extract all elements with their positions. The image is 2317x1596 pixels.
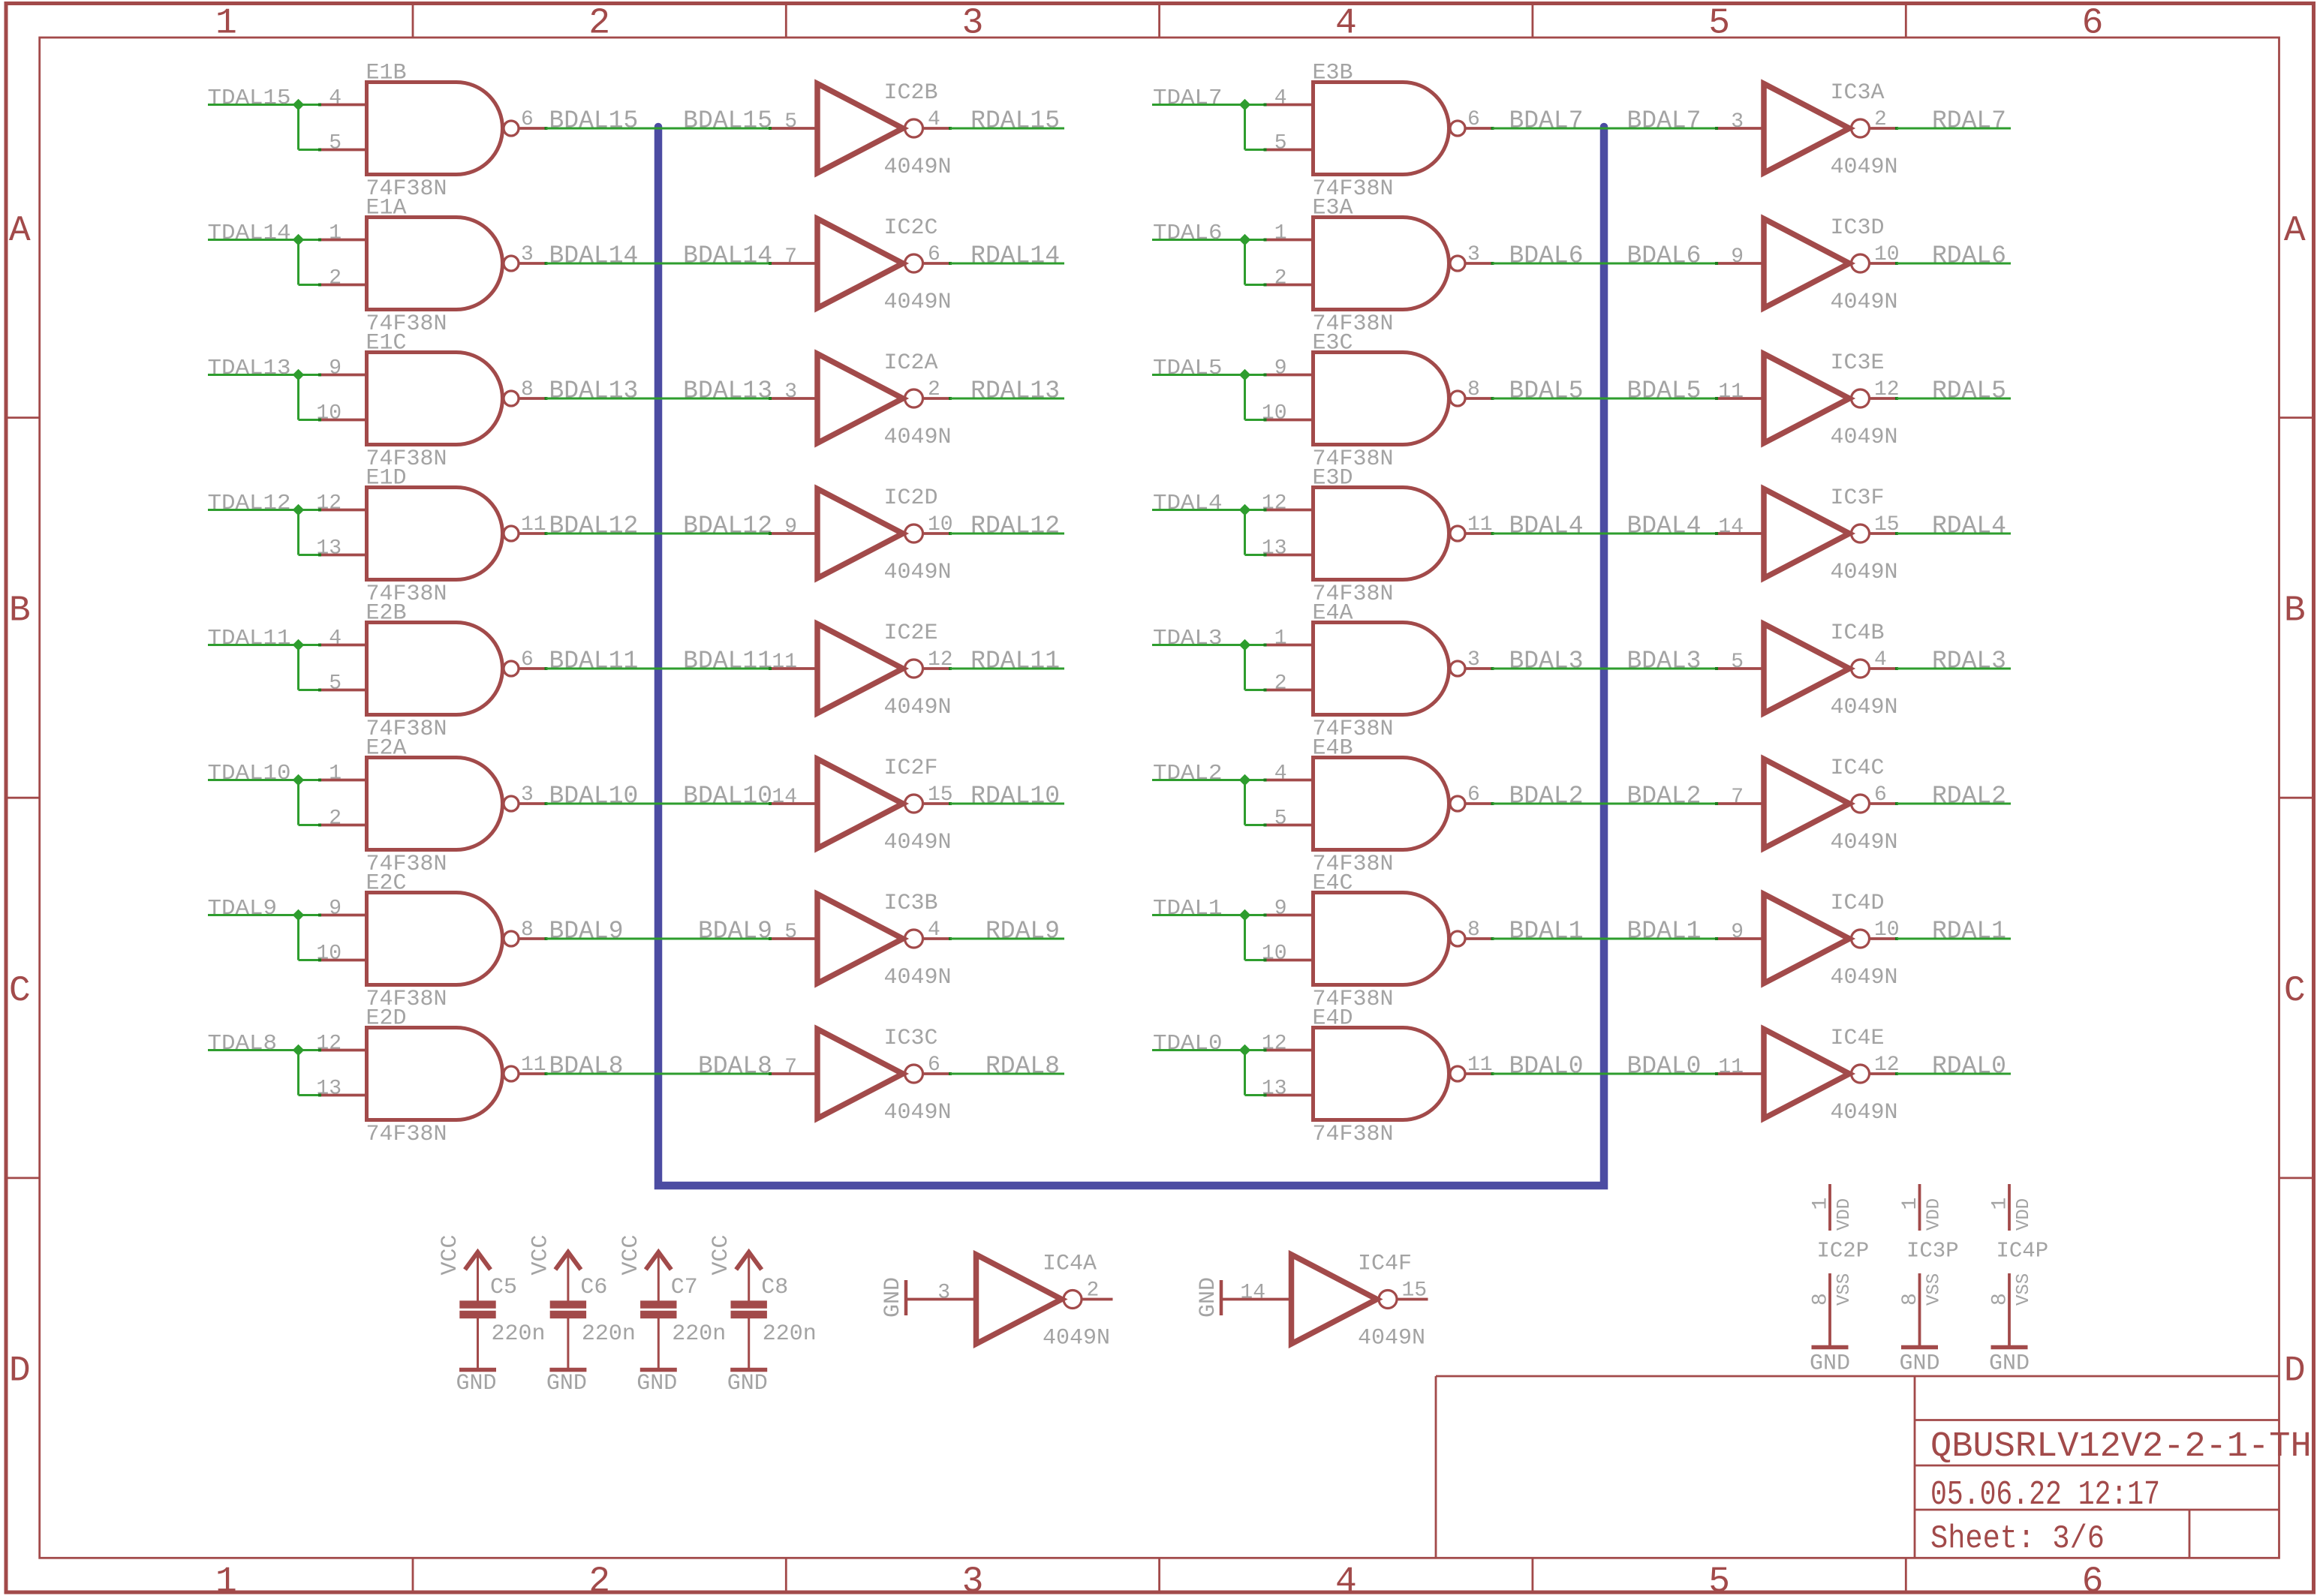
E1C output pin number 8 — [521, 378, 534, 401]
IC4P VSS label — [2014, 1273, 2034, 1306]
IC4B name — [1831, 621, 1885, 646]
E4C output pin number 8 — [1467, 918, 1480, 942]
IC2A value 4049N — [884, 425, 952, 450]
E1A name — [366, 196, 407, 221]
IC3C output pin 6 lead — [924, 1072, 952, 1075]
row label C left — [9, 971, 31, 1011]
E2D pin 12 lead — [318, 1049, 369, 1052]
E1B output pin 6 lead — [518, 127, 548, 130]
E4D value 74F38N — [1313, 1122, 1394, 1147]
label BDAL12 right of bus — [683, 512, 772, 540]
svg-text:VDD: VDD — [1924, 1198, 1945, 1231]
NAND gate E3C — [1313, 353, 1466, 445]
svg-text:3: 3 — [784, 380, 797, 404]
svg-text:GND: GND — [636, 1371, 677, 1396]
IC4F value 4049N — [1358, 1326, 1425, 1351]
IC4B output pin 4 lead — [1870, 667, 1898, 670]
E4D pin 13 lead — [1264, 1094, 1315, 1097]
svg-text:E3D: E3D — [1313, 466, 1353, 491]
IC2B output pin 4 lead — [924, 127, 952, 130]
svg-text:BDAL1: BDAL1 — [1509, 918, 1584, 945]
net TDAL6 wire — [1152, 240, 1265, 285]
NAND gate E3A — [1313, 218, 1466, 310]
label TDAL11 — [208, 626, 291, 651]
svg-text:BDAL3: BDAL3 — [1626, 648, 1701, 675]
svg-text:4049N: 4049N — [1831, 155, 1898, 180]
E1D name — [366, 466, 407, 491]
svg-text:IC3A: IC3A — [1831, 80, 1885, 106]
bus BDAL[15..8] left vertical + bottom + right vertical — [658, 127, 1604, 1186]
net RDAL14 wire — [950, 263, 1064, 265]
svg-text:IC2C: IC2C — [884, 215, 938, 241]
E2B pin number 4 — [329, 627, 342, 651]
VCC label for C7 — [618, 1234, 644, 1275]
label BDAL11 left of bus — [549, 648, 639, 675]
svg-text:BDAL13: BDAL13 — [549, 377, 639, 405]
svg-text:1: 1 — [1899, 1198, 1922, 1210]
svg-text:11: 11 — [1718, 380, 1744, 404]
IC2C name — [884, 215, 938, 241]
svg-text:74F38N: 74F38N — [1313, 1122, 1394, 1147]
svg-text:4: 4 — [1335, 4, 1357, 44]
IC3P pin number 8 — [1899, 1293, 1922, 1306]
column label 3 top — [962, 4, 984, 44]
IC3E output pin number 12 — [1874, 378, 1900, 401]
svg-text:12: 12 — [316, 1032, 342, 1056]
E4A pin number 2 — [1274, 672, 1287, 696]
E4A name — [1313, 601, 1353, 627]
net RDAL8 wire — [950, 1073, 1064, 1075]
inverter IC3B — [817, 894, 923, 984]
svg-text:2: 2 — [1874, 108, 1887, 131]
svg-text:8: 8 — [1989, 1293, 2012, 1306]
capacitor C6 — [550, 1305, 586, 1368]
svg-text:VSS: VSS — [2014, 1273, 2034, 1306]
NAND gate E1B — [367, 83, 519, 175]
junction TDAL5 — [1239, 369, 1251, 381]
svg-text:4049N: 4049N — [1831, 695, 1898, 720]
svg-text:9: 9 — [329, 357, 342, 380]
svg-text:IC4P: IC4P — [1997, 1239, 2049, 1264]
net BDAL10 wire (bus to inverter) — [658, 803, 771, 805]
C7 value 220n — [672, 1321, 726, 1347]
E3A name — [1313, 196, 1353, 221]
svg-text:E1B: E1B — [366, 61, 407, 86]
IC3B input pin 5 lead — [769, 937, 819, 940]
E2A pin 1 lead — [318, 779, 369, 782]
label BDAL9 left of bus — [549, 918, 624, 945]
IC2C value 4049N — [884, 290, 952, 315]
svg-text:GND: GND — [456, 1371, 496, 1396]
svg-text:RDAL11: RDAL11 — [970, 648, 1060, 675]
IC3A name — [1831, 80, 1885, 106]
IC3B value 4049N — [884, 965, 952, 990]
svg-text:E4B: E4B — [1313, 736, 1353, 762]
GND label for C6 — [546, 1371, 587, 1396]
E3A output pin number 3 — [1467, 243, 1480, 266]
E4D pin 12 lead — [1264, 1049, 1315, 1052]
column label 4 bottom — [1335, 1562, 1357, 1596]
E1D pin 12 lead — [318, 509, 369, 512]
svg-text:4049N: 4049N — [884, 965, 952, 990]
svg-text:1: 1 — [1989, 1198, 2012, 1210]
net BDAL8 wire (bus to inverter) — [658, 1073, 771, 1075]
E1C value 74F38N — [366, 446, 447, 472]
junction TDAL13 — [293, 369, 305, 381]
IC2F name — [884, 756, 938, 781]
label BDAL0 right of bus — [1626, 1053, 1701, 1081]
svg-text:1: 1 — [215, 1562, 237, 1596]
svg-text:13: 13 — [1262, 537, 1287, 561]
svg-text:220n: 220n — [582, 1321, 636, 1347]
svg-text:BDAL12: BDAL12 — [549, 512, 639, 540]
IC2P name — [1817, 1239, 1870, 1264]
IC4C input pin 7 lead — [1715, 802, 1765, 805]
E4B output pin number 6 — [1467, 783, 1480, 807]
IC2E name — [884, 621, 938, 646]
IC2F value 4049N — [884, 830, 952, 855]
label TDAL0 — [1153, 1031, 1223, 1056]
power symbol IC4P VDD pin 1 — [2008, 1184, 2011, 1231]
svg-text:12: 12 — [1874, 378, 1900, 401]
svg-text:15: 15 — [1402, 1279, 1428, 1303]
svg-text:10: 10 — [316, 942, 342, 966]
svg-text:12: 12 — [316, 492, 342, 515]
E2B pin 4 lead — [318, 644, 369, 647]
svg-text:E1C: E1C — [366, 331, 407, 356]
E2D output pin number 11 — [521, 1053, 546, 1077]
E4C pin number 10 — [1262, 942, 1287, 966]
inverter IC4E — [1764, 1029, 1870, 1119]
svg-text:5: 5 — [1708, 1562, 1730, 1596]
E3C pin 9 lead — [1264, 374, 1315, 377]
E1A pin 1 lead — [318, 239, 369, 242]
GND label for C8 — [727, 1371, 768, 1396]
E4B pin number 4 — [1274, 762, 1287, 786]
svg-text:TDAL1: TDAL1 — [1153, 896, 1223, 921]
column label 4 top — [1335, 4, 1357, 44]
svg-text:TDAL10: TDAL10 — [208, 761, 291, 786]
E4D output pin number 11 — [1467, 1053, 1493, 1077]
svg-text:15: 15 — [1874, 513, 1900, 537]
inverter IC3E — [1764, 354, 1870, 443]
svg-text:1: 1 — [215, 4, 237, 44]
E2D output pin 11 lead — [518, 1072, 548, 1075]
net TDAL8 wire — [208, 1050, 320, 1096]
IC3E name — [1831, 350, 1885, 376]
inverter IC3D — [1764, 219, 1870, 308]
svg-text:IC4B: IC4B — [1831, 621, 1885, 646]
date text 05.06.22 12:17 — [1930, 1475, 2160, 1514]
svg-text:IC3E: IC3E — [1831, 350, 1885, 376]
label BDAL3 right of bus — [1626, 648, 1701, 675]
net TDAL3 wire — [1152, 645, 1265, 690]
net BDAL12 wire (gate to bus) — [546, 533, 659, 535]
svg-text:2: 2 — [1087, 1279, 1100, 1303]
svg-text:RDAL5: RDAL5 — [1932, 377, 2006, 405]
VCC symbol for C5 — [465, 1252, 491, 1302]
NAND gate E2A — [367, 758, 519, 850]
power symbol IC3P VSS pin 8 — [1918, 1273, 1921, 1345]
svg-text:IC2P: IC2P — [1817, 1239, 1870, 1264]
E1C name — [366, 331, 407, 356]
junction TDAL9 — [293, 909, 305, 921]
svg-text:IC3B: IC3B — [884, 891, 938, 916]
junction TDAL1 — [1239, 909, 1251, 921]
IC2F input pin 14 lead — [769, 802, 819, 805]
E2D name — [366, 1006, 407, 1032]
svg-text:BDAL8: BDAL8 — [698, 1053, 772, 1081]
IC4P pin number 1 — [1989, 1198, 2012, 1210]
IC3A output pin number 2 — [1874, 108, 1887, 131]
E1D pin number 13 — [316, 537, 342, 561]
svg-text:IC2B: IC2B — [884, 80, 938, 106]
label BDAL14 right of bus — [683, 242, 772, 270]
E1D output pin number 11 — [521, 513, 546, 537]
net RDAL2 wire — [1897, 803, 2011, 805]
IC3B output pin number 4 — [928, 918, 940, 942]
C6 value 220n — [582, 1321, 636, 1347]
net BDAL6 wire (bus to inverter) — [1604, 263, 1717, 265]
svg-text:4: 4 — [1274, 762, 1287, 786]
net BDAL8 wire (gate to bus) — [546, 1073, 659, 1075]
IC3E value 4049N — [1831, 425, 1898, 450]
svg-text:GND: GND — [880, 1277, 906, 1318]
ground symbol for C6 — [549, 1368, 586, 1372]
row label B left — [9, 591, 31, 631]
E1A output pin number 3 — [521, 243, 534, 266]
E1A output pin 3 lead — [518, 262, 548, 265]
svg-text:4: 4 — [1874, 648, 1887, 672]
svg-text:3: 3 — [1467, 648, 1480, 672]
inverter IC3F — [1764, 489, 1870, 579]
IC4A input pin 3 lead — [906, 1298, 978, 1301]
IC3C value 4049N — [884, 1100, 952, 1126]
svg-text:IC4D: IC4D — [1831, 891, 1885, 916]
IC3B name — [884, 891, 938, 916]
inverter IC2F — [817, 759, 923, 849]
E2B value 74F38N — [366, 717, 447, 742]
E2A name — [366, 736, 407, 762]
IC4A value 4049N — [1043, 1326, 1110, 1351]
IC2E value 4049N — [884, 695, 952, 720]
C8 name — [761, 1275, 788, 1300]
E2A pin 2 lead — [318, 824, 369, 827]
svg-text:9: 9 — [1731, 245, 1744, 269]
svg-text:E1D: E1D — [366, 466, 407, 491]
label TDAL5 — [1153, 356, 1223, 380]
E2B name — [366, 601, 407, 627]
E3B output pin number 6 — [1467, 108, 1480, 131]
net RDAL9 wire — [950, 938, 1064, 940]
net BDAL2 wire (bus to inverter) — [1604, 803, 1717, 805]
svg-text:4049N: 4049N — [884, 560, 952, 585]
title block sheet cell divider — [2189, 1510, 2191, 1558]
svg-text:RDAL0: RDAL0 — [1932, 1053, 2006, 1081]
E1A pin number 1 — [329, 222, 342, 245]
svg-text:11: 11 — [1718, 1056, 1744, 1079]
svg-text:6: 6 — [521, 108, 534, 131]
inverter IC2A — [817, 354, 923, 443]
svg-text:2: 2 — [329, 807, 342, 831]
junction TDAL10 — [293, 774, 305, 786]
net BDAL0 wire (bus to inverter) — [1604, 1073, 1717, 1075]
frame row tick right A/B — [2279, 416, 2314, 419]
svg-text:2: 2 — [588, 1562, 610, 1596]
IC4F output pin 15 lead — [1398, 1298, 1428, 1301]
column label 1 bottom — [215, 1562, 237, 1596]
svg-text:A: A — [9, 211, 31, 251]
svg-text:Sheet: 3/6: Sheet: 3/6 — [1930, 1520, 2105, 1558]
svg-text:VCC: VCC — [438, 1234, 463, 1275]
svg-text:VSS: VSS — [1924, 1273, 1945, 1306]
label BDAL5 left of bus — [1509, 377, 1584, 405]
svg-text:8: 8 — [1810, 1293, 1833, 1306]
IC2B value 4049N — [884, 155, 952, 180]
label TDAL8 — [208, 1031, 278, 1056]
label RDAL0 — [1932, 1053, 2006, 1081]
svg-text:4: 4 — [329, 627, 342, 651]
svg-text:4: 4 — [1335, 1562, 1357, 1596]
label RDAL5 — [1932, 377, 2006, 405]
svg-text:BDAL5: BDAL5 — [1509, 377, 1584, 405]
E2C pin 10 lead — [318, 959, 369, 962]
E2B output pin 6 lead — [518, 667, 548, 670]
svg-text:TDAL12: TDAL12 — [208, 491, 291, 515]
E4A value 74F38N — [1313, 717, 1394, 742]
label BDAL4 left of bus — [1509, 512, 1584, 540]
net TDAL2 wire — [1152, 780, 1265, 825]
GND label for IC2P — [1810, 1351, 1850, 1377]
E2B output pin number 6 — [521, 648, 534, 672]
svg-text:E2D: E2D — [366, 1006, 407, 1032]
label RDAL4 — [1932, 512, 2006, 540]
svg-text:RDAL6: RDAL6 — [1932, 242, 2006, 270]
svg-text:VCC: VCC — [709, 1234, 734, 1275]
ground symbol for IC4P — [1991, 1345, 2028, 1350]
column label 5 bottom — [1708, 1562, 1730, 1596]
label RDAL6 — [1932, 242, 2006, 270]
IC2D output pin 10 lead — [924, 532, 952, 535]
net BDAL7 wire (gate to bus) — [1493, 128, 1605, 130]
svg-text:E2C: E2C — [366, 871, 407, 897]
IC2F input pin number 14 — [772, 786, 797, 809]
svg-text:BDAL0: BDAL0 — [1626, 1053, 1701, 1081]
inverter IC2D — [817, 489, 923, 579]
svg-text:TDAL15: TDAL15 — [208, 86, 291, 110]
VCC label for C5 — [438, 1234, 463, 1275]
label RDAL3 — [1932, 648, 2006, 675]
label RDAL11 — [970, 648, 1060, 675]
label BDAL9 right of bus — [698, 918, 772, 945]
IC4F output pin number 15 — [1402, 1279, 1428, 1303]
E3D pin 12 lead — [1264, 509, 1315, 512]
net TDAL11 wire — [208, 645, 320, 690]
inverter IC4B — [1764, 624, 1870, 714]
svg-text:TDAL11: TDAL11 — [208, 626, 291, 651]
IC2C input pin number 7 — [784, 245, 797, 269]
E4A pin 2 lead — [1264, 689, 1315, 692]
frame row tick left B/C — [6, 797, 40, 799]
frame column tick bottom 3/4 — [1158, 1558, 1160, 1592]
E4B pin number 5 — [1274, 807, 1287, 831]
svg-text:E4A: E4A — [1313, 601, 1353, 627]
svg-text:5: 5 — [784, 921, 797, 944]
IC2C output pin 6 lead — [924, 262, 952, 265]
label BDAL11 right of bus — [683, 648, 772, 675]
title block outline — [1436, 1376, 2279, 1558]
label BDAL13 left of bus — [549, 377, 639, 405]
E3B value 74F38N — [1313, 176, 1394, 202]
frame column tick top 5/6 — [1905, 4, 1907, 38]
svg-text:D: D — [9, 1351, 31, 1392]
svg-text:BDAL15: BDAL15 — [683, 107, 772, 135]
label BDAL6 left of bus — [1509, 242, 1584, 270]
svg-text:12: 12 — [1262, 1032, 1287, 1056]
E2C output pin number 8 — [521, 918, 534, 942]
E3A pin number 2 — [1274, 267, 1287, 290]
svg-text:5: 5 — [1274, 807, 1287, 831]
svg-text:RDAL7: RDAL7 — [1932, 107, 2006, 135]
capacitor C8 — [731, 1305, 767, 1368]
net TDAL5 wire — [1152, 375, 1265, 420]
svg-text:5: 5 — [329, 672, 342, 696]
svg-text:11: 11 — [1467, 1053, 1493, 1077]
IC4D output pin number 10 — [1874, 918, 1900, 942]
svg-text:74F38N: 74F38N — [366, 1122, 447, 1147]
E3C name — [1313, 331, 1353, 356]
net RDAL13 wire — [950, 398, 1064, 400]
label BDAL6 right of bus — [1626, 242, 1701, 270]
svg-text:3: 3 — [521, 243, 534, 266]
E3D pin number 13 — [1262, 537, 1287, 561]
E3D output pin number 11 — [1467, 513, 1493, 537]
label RDAL1 — [1932, 918, 2006, 945]
GND label for C5 — [456, 1371, 496, 1396]
IC4C output pin 6 lead — [1870, 802, 1898, 805]
E2B pin 5 lead — [318, 689, 369, 692]
svg-text:11: 11 — [772, 651, 797, 674]
frame row tick right C/D — [2279, 1177, 2314, 1180]
svg-text:9: 9 — [784, 515, 797, 539]
svg-text:TDAL4: TDAL4 — [1153, 491, 1223, 515]
IC3A output pin 2 lead — [1870, 127, 1898, 130]
IC3P VSS label — [1924, 1273, 1945, 1306]
label TDAL15 — [208, 86, 291, 110]
IC3A input pin 3 lead — [1715, 127, 1765, 130]
svg-text:8: 8 — [521, 918, 534, 942]
svg-text:5: 5 — [1731, 651, 1744, 674]
E3A value 74F38N — [1313, 311, 1394, 337]
svg-text:GND: GND — [727, 1371, 768, 1396]
NAND gate E3B — [1313, 83, 1466, 175]
frame row tick left C/D — [6, 1177, 40, 1180]
IC4D output pin 10 lead — [1870, 937, 1898, 940]
svg-text:13: 13 — [316, 537, 342, 561]
net TDAL0 wire — [1152, 1050, 1265, 1096]
net BDAL14 wire (bus to inverter) — [658, 263, 771, 265]
label TDAL14 — [208, 221, 291, 245]
svg-text:IC4A: IC4A — [1043, 1252, 1097, 1277]
frame column tick bottom 1/2 — [412, 1558, 414, 1592]
row label C right — [2284, 971, 2306, 1011]
IC4A output pin number 2 — [1087, 1279, 1100, 1303]
E3B pin 5 lead — [1264, 149, 1315, 152]
IC3C output pin number 6 — [928, 1053, 940, 1077]
IC4E input pin number 11 — [1718, 1056, 1744, 1079]
svg-text:6: 6 — [928, 243, 940, 266]
E2D value 74F38N — [366, 1122, 447, 1147]
